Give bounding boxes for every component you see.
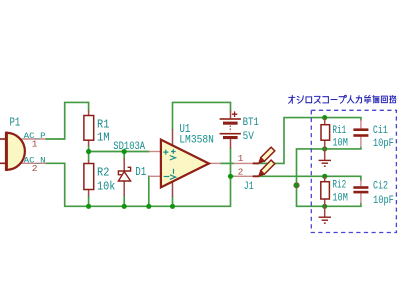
svg-text:LM358N: LM358N	[179, 135, 214, 147]
svg-text:1M: 1M	[97, 131, 110, 145]
svg-text:R2: R2	[97, 165, 109, 179]
svg-text:10k: 10k	[97, 179, 115, 193]
svg-text:1: 1	[32, 138, 38, 149]
svg-text:J1: J1	[244, 181, 254, 193]
svg-text:R1: R1	[97, 117, 109, 131]
svg-text:P1: P1	[10, 115, 21, 129]
svg-text:5V: 5V	[243, 131, 254, 143]
svg-text:10M: 10M	[332, 193, 348, 205]
svg-text:D1: D1	[135, 165, 146, 179]
svg-text:Ri2: Ri2	[332, 180, 346, 192]
svg-text:10pF: 10pF	[373, 195, 394, 207]
svg-text:SD103A: SD103A	[113, 141, 145, 153]
svg-text:BT1: BT1	[243, 117, 259, 129]
svg-text:10M: 10M	[332, 138, 348, 150]
svg-text:1: 1	[238, 153, 244, 164]
svg-text:Ri1: Ri1	[332, 125, 346, 137]
svg-text:10pF: 10pF	[373, 138, 394, 150]
svg-text:2: 2	[32, 163, 38, 174]
svg-text:2: 2	[238, 167, 244, 178]
svg-text:Ci2: Ci2	[373, 180, 388, 192]
svg-text:Ci1: Ci1	[373, 125, 388, 137]
